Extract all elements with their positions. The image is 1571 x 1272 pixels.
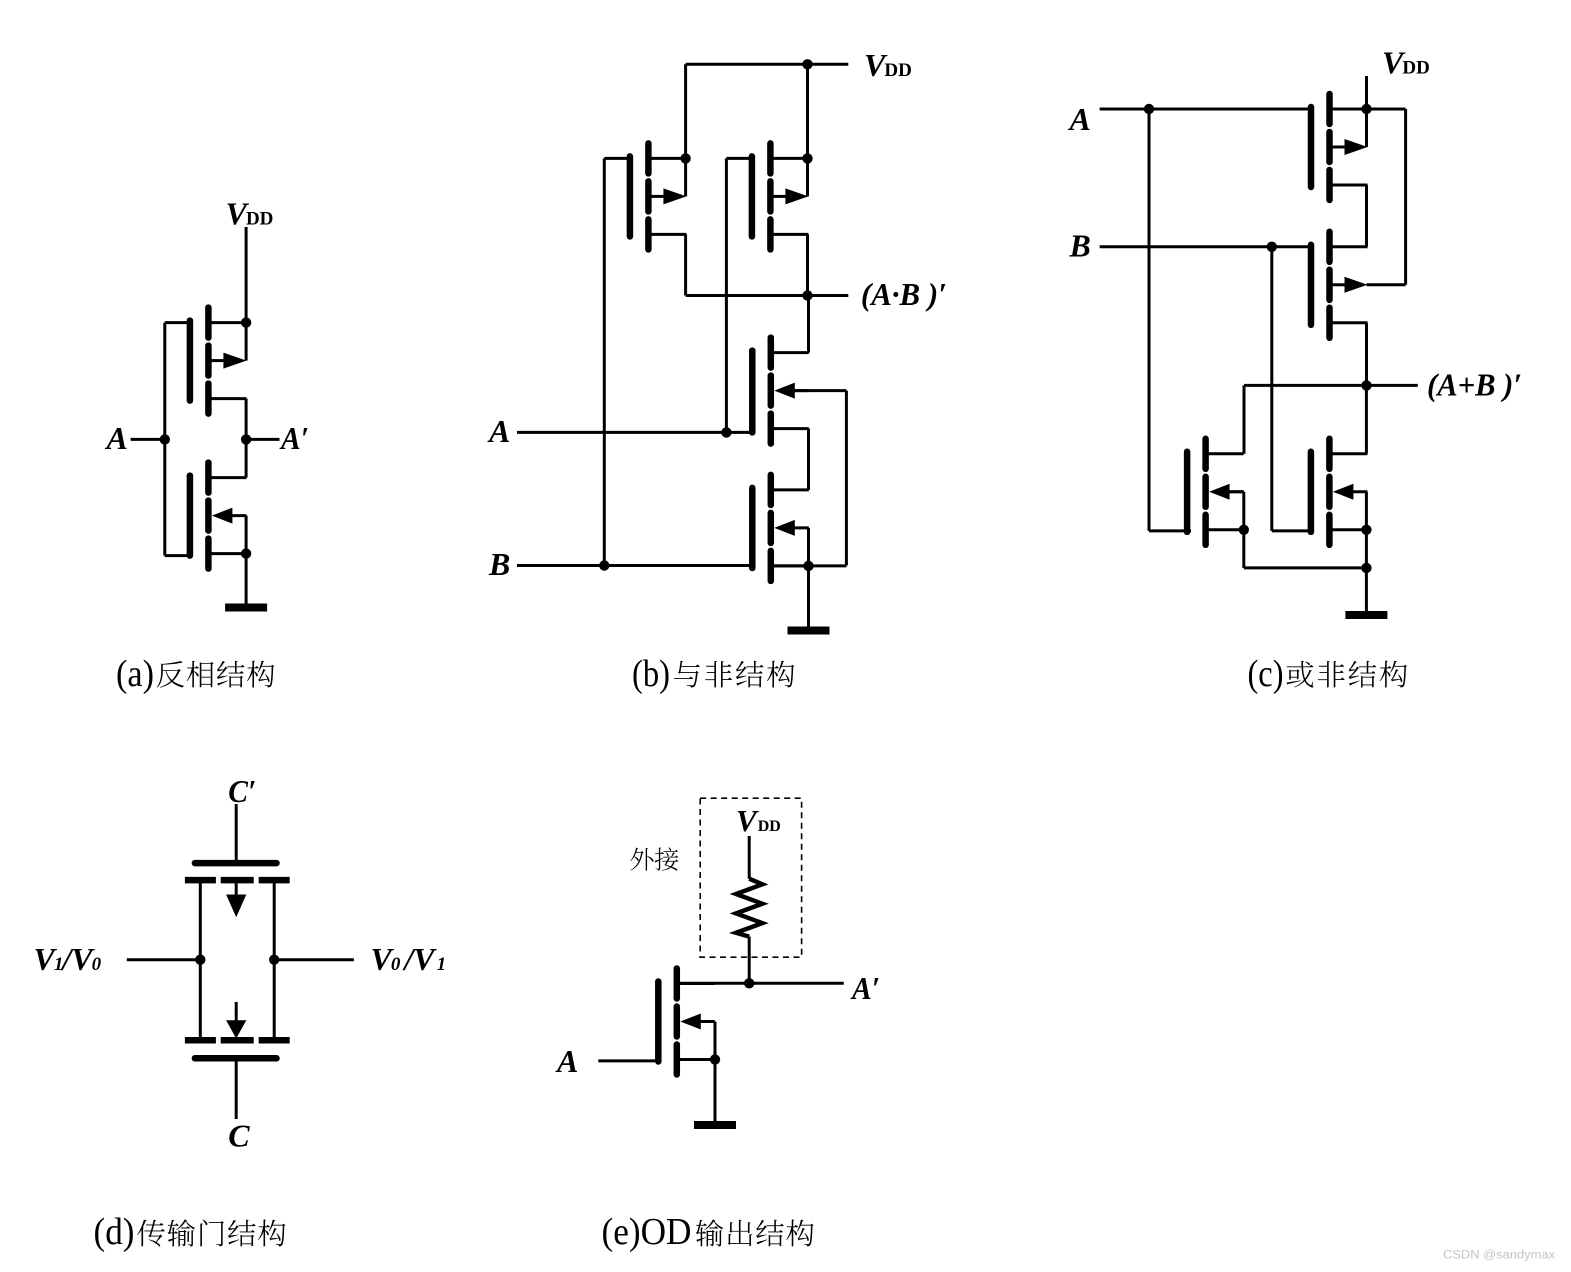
svg-text:VDD: VDD: [864, 47, 912, 83]
svg-text:(A+B )′: (A+B )′: [1427, 367, 1522, 403]
svg-text:CSDN @sandymax: CSDN @sandymax: [1443, 1250, 1555, 1262]
svg-text:(e)OD: (e)OD: [602, 1211, 692, 1253]
svg-text:V0/V1: V0/V1: [371, 941, 447, 977]
svg-text:C′: C′: [228, 773, 256, 809]
svg-text:A: A: [105, 420, 128, 456]
svg-text:(b): (b): [632, 653, 670, 695]
svg-text:A: A: [487, 413, 510, 449]
svg-text:(c): (c): [1248, 653, 1284, 695]
svg-text:V1/V0: V1/V0: [34, 941, 102, 977]
svg-text:(A·B )′: (A·B )′: [861, 276, 947, 312]
svg-text:B: B: [488, 546, 510, 582]
svg-text:B: B: [1069, 227, 1091, 263]
svg-text:A: A: [555, 1043, 578, 1079]
svg-text:VDD: VDD: [736, 803, 781, 838]
svg-text:VDD: VDD: [1382, 45, 1430, 81]
svg-text:(d): (d): [94, 1211, 135, 1253]
svg-text:A′: A′: [850, 970, 880, 1006]
svg-text:C: C: [228, 1118, 250, 1154]
svg-text:A: A: [1068, 101, 1091, 137]
svg-text:A′: A′: [279, 420, 309, 456]
svg-text:(a): (a): [116, 653, 154, 695]
svg-text:VDD: VDD: [226, 196, 274, 232]
